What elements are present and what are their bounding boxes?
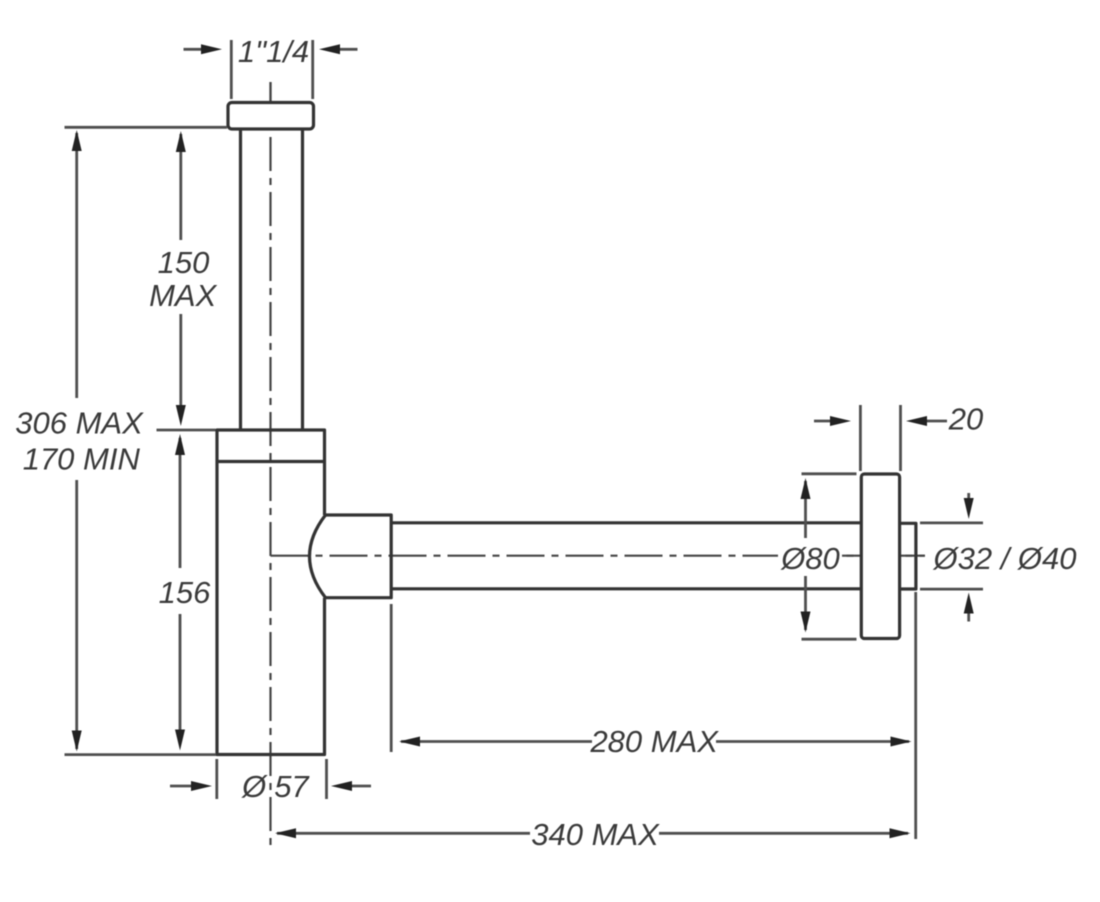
centerline horizontal (pipe axis) <box>271 555 926 557</box>
dim 32/40 bottom extension line <box>920 588 983 591</box>
dim 1"1/4 left extension line <box>230 40 233 99</box>
dim 280 MAX line <box>401 740 909 743</box>
dim 32/40 top extension line <box>920 522 983 525</box>
dim 280 MAX right extension line <box>914 592 917 839</box>
dim 156 line <box>179 438 182 734</box>
dim 57 left extension line <box>215 759 218 799</box>
dim 306/170 up arrow <box>72 130 82 151</box>
dim 150 MAX down arrow <box>176 405 186 426</box>
inlet pipe right wall <box>301 129 304 429</box>
outlet nut curved face <box>310 515 326 598</box>
centerline solid segment through inlet nut <box>269 82 271 130</box>
svg-text:150: 150 <box>158 245 210 280</box>
dim 80 top extension line <box>802 472 857 475</box>
dim 20 right extension line <box>899 405 902 471</box>
wall flange <box>861 474 899 639</box>
dim 150 MAX up arrow <box>176 131 186 152</box>
svg-text:1"1/4: 1"1/4 <box>238 34 309 69</box>
trap body outline <box>217 430 325 755</box>
svg-text:Ø32 / Ø40: Ø32 / Ø40 <box>932 541 1076 576</box>
svg-text:156: 156 <box>159 575 211 610</box>
dim 150 MAX line <box>179 134 182 410</box>
dim 150 MAX bottom extension line <box>157 429 216 432</box>
svg-text:306 MAX: 306 MAX <box>15 405 144 440</box>
body collar divider <box>217 460 325 463</box>
dim 32/40 up arrow <box>967 613 970 622</box>
dim 280 MAX left extension line <box>390 604 393 752</box>
dim 57 right arrow <box>349 785 371 788</box>
centerline vertical (body axis) <box>269 82 271 846</box>
dim 280 MAX left arrow <box>399 737 420 747</box>
dim 280 MAX right arrow <box>891 737 912 747</box>
svg-text:57: 57 <box>274 769 310 804</box>
wall pipe stub <box>900 523 916 589</box>
dim 80 line <box>804 481 807 630</box>
svg-text:Ø80: Ø80 <box>780 541 840 576</box>
dim 32/40 down arrow <box>967 493 970 500</box>
dim 306/170 line <box>75 133 78 749</box>
dim 80 down arrow <box>801 612 811 633</box>
inlet pipe left wall <box>239 129 242 429</box>
pipe bottom wall <box>391 587 861 590</box>
outlet nut <box>324 515 391 598</box>
dim 306/170 bottom extension line <box>65 753 217 756</box>
dim 57 right extension line <box>325 759 328 799</box>
svg-text:340 MAX: 340 MAX <box>531 817 660 852</box>
svg-text:Ø: Ø <box>241 769 268 804</box>
centerline solid segment before flange <box>841 555 860 557</box>
dim 340 MAX left arrow <box>275 828 296 838</box>
dim 306/170 top extension line <box>65 126 228 129</box>
dim 156 up arrow <box>175 434 185 455</box>
dim 1"1/4 right arrow <box>337 48 358 51</box>
dim 20 left extension line <box>859 405 862 471</box>
dim 340 MAX line <box>277 832 908 835</box>
svg-text:280 MAX: 280 MAX <box>589 724 719 759</box>
svg-text:170 MIN: 170 MIN <box>23 441 141 476</box>
inlet nut (top flange) <box>228 103 314 130</box>
dim 156 down arrow <box>175 730 185 751</box>
dim label 80 background <box>778 539 842 575</box>
dim 1"1/4 left arrow <box>184 48 206 51</box>
dim 1"1/4 right extension line <box>311 40 314 99</box>
svg-text:20: 20 <box>948 402 983 437</box>
dim 340 MAX right arrow <box>890 828 911 838</box>
dim 20 right arrow <box>925 420 947 423</box>
centerline solid segment at wall stub <box>900 555 925 557</box>
dim 20 left arrow <box>814 420 834 423</box>
dim 80 up arrow <box>801 478 811 499</box>
dim 57 left arrow <box>170 785 195 788</box>
dim 306/170 down arrow <box>72 731 82 752</box>
dim 80 bottom extension line <box>802 638 857 641</box>
pipe top wall <box>391 521 861 524</box>
svg-text:MAX: MAX <box>149 278 218 313</box>
